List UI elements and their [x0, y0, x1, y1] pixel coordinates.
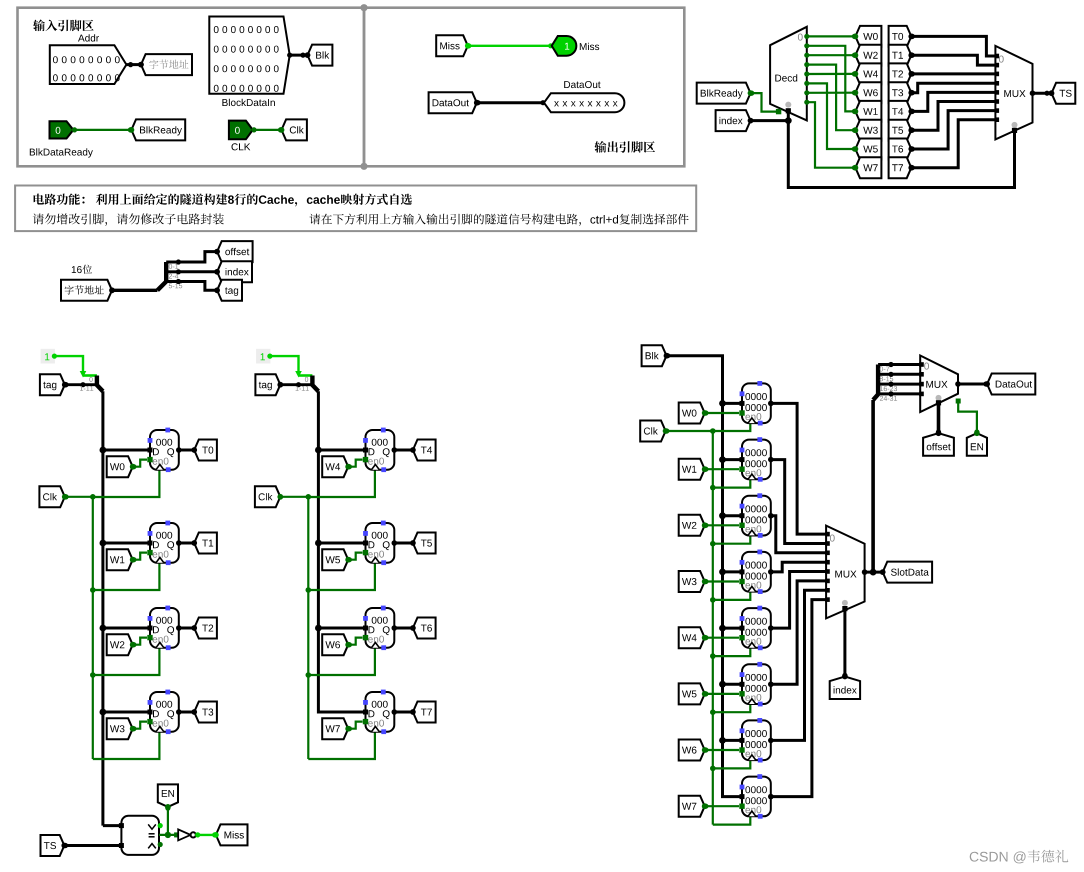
- wire W4 tunnel to register enable: [348, 460, 362, 467]
- wire slot register 1 Q to cache MUX input 1: [771, 460, 826, 544]
- wire W5 tunnel to slot register enable: [705, 693, 739, 695]
- tunnel W2 (write enable): [107, 634, 133, 655]
- wire W1 tunnel to slot register enable: [705, 468, 739, 470]
- decoder U1 Decd: [770, 27, 807, 121]
- wire Blk bus to slot register 3 D: [723, 570, 743, 573]
- tunnel Miss (comparator result): [216, 824, 248, 845]
- slot register R4 (32-bit): [742, 608, 771, 648]
- junction Blk bus row 5: [719, 681, 726, 688]
- clock branch to slot register 7: [713, 817, 751, 825]
- wire Blk bus to slot register 5 D: [723, 683, 743, 686]
- tunnel W6 (write enable): [322, 634, 348, 655]
- splitter SP1 (16-bit to offset/index/tag): [157, 262, 166, 290]
- wire slot register 7 Q to cache MUX input 7: [771, 600, 826, 797]
- junction Blk bus row 4: [719, 625, 726, 632]
- clock branch to register T7 (column W4-W7): [308, 732, 375, 759]
- wire tag tunnel to combiner (column W4-W7): [280, 383, 312, 386]
- clock branch to register T5 (column W4-W7): [308, 563, 375, 590]
- wire Blk bus to slot register 0 D: [723, 402, 743, 405]
- junction EN / equals wire: [165, 832, 171, 838]
- wire tag bus to register D row T2 (column W0-W3): [103, 627, 150, 630]
- junction tag bus row T3 (column W0-W3): [100, 709, 107, 716]
- wire EN tunnel to DataOut MUX enable: [958, 402, 977, 433]
- wire 字节地址 to splitter: [112, 289, 157, 292]
- tunnel W4 (decoder outputs): [855, 63, 881, 84]
- clock branch to slot register 2: [713, 536, 751, 544]
- junction clock rail top (column W4-W7): [306, 494, 312, 500]
- decoder select pin square: [786, 108, 791, 113]
- wire decoder out 7 to W7 tunnel: [807, 102, 856, 168]
- clock branch to register T6 (column W4-W7): [308, 648, 375, 675]
- circuit description box: [15, 186, 696, 232]
- mux U2 MUX (T0-T7 to TS): [995, 46, 1032, 139]
- label BlkDataReady: [30, 148, 93, 157]
- NOT gate input pin square: [174, 832, 179, 837]
- junction clock rail row T6 (column W4-W7): [306, 672, 312, 678]
- clock branch to slot register 3: [713, 592, 751, 600]
- tunnel W0 (decoder outputs): [855, 26, 881, 47]
- clock branch to register T0 (column W0-W3): [93, 470, 160, 497]
- wire splitter byte 3 to DataOut MUX input 3: [891, 392, 920, 395]
- register T1 (D flip-flop with enable): [150, 523, 179, 563]
- Blk bus to registers: [667, 356, 743, 797]
- label 输出引脚区: [595, 141, 656, 153]
- tunnel Clk (input area): [282, 119, 307, 140]
- slot register R3 (32-bit): [742, 552, 771, 592]
- label DataOut (above output pin): [564, 81, 600, 88]
- wire W0 tunnel to register enable: [133, 460, 147, 467]
- tunnel index (splitter): [217, 261, 252, 282]
- wire slot register 5 Q to cache MUX input 5: [771, 581, 826, 684]
- tunnel W7 (slot write enable): [679, 796, 705, 817]
- junction tag bus row T1 (column W0-W3): [100, 540, 107, 547]
- splitter SP2 bit labels: [880, 367, 890, 372]
- wire T2 tunnel to MUX input 2: [911, 72, 995, 75]
- tunnel W6 (decoder outputs): [855, 82, 881, 103]
- wire T1 tunnel to MUX input 1: [911, 55, 995, 65]
- clock branch to register T3 (column W0-W3): [93, 732, 160, 759]
- tunnel W3 (decoder outputs): [855, 120, 881, 141]
- label 输入引脚区: [33, 20, 94, 32]
- tunnel SlotData: [883, 562, 932, 583]
- junction tag bus row T0 (column W0-W3): [100, 447, 107, 454]
- wire T0 tunnel to MUX input 0: [911, 36, 995, 56]
- tunnel T1 (register output): [194, 533, 217, 554]
- wire decoder out 4 to W4 tunnel: [807, 73, 856, 75]
- wire NOT gate to Miss tunnel: [197, 834, 216, 836]
- tunnel T4 (to MUX): [889, 101, 912, 122]
- wire W2 tunnel to slot register enable: [705, 524, 739, 526]
- tunnel Clk (column W0-W3): [39, 486, 64, 507]
- input pin CLK (value 0): [229, 121, 253, 140]
- tunnel tag (splitter): [217, 280, 242, 301]
- wire register Q to T6 tunnel: [394, 627, 413, 630]
- wire Clk tunnel to slot register 0 clock: [666, 423, 751, 431]
- junction tag bus row T5 (column W4-W7): [315, 540, 322, 547]
- wire BlkDataReady to BlkReady tunnel: [73, 129, 131, 131]
- tunnel T7 (register output): [413, 702, 436, 723]
- register T0 (D flip-flop with enable): [150, 430, 179, 470]
- junction Blk bus row 1: [719, 456, 726, 463]
- wire register Q to T0 tunnel: [179, 449, 195, 452]
- frame handle bottom: [360, 163, 367, 170]
- comparator U3 (tag == TS): [121, 816, 159, 855]
- tunnel T2 (to MUX): [889, 63, 912, 84]
- tunnel offset (byte select): [923, 433, 954, 456]
- tunnel 字节地址 (splitter source): [61, 280, 112, 301]
- wire Miss tunnel to Miss output pin: [468, 45, 552, 47]
- wire tag bus to comparator input A (column W0-W3): [103, 824, 122, 827]
- tunnel W4 (slot write enable): [679, 627, 705, 648]
- wire BlockDataIn to Blk tunnel: [290, 54, 308, 57]
- tunnel Blk (input area): [308, 45, 333, 66]
- wire splitter byte 0 to DataOut MUX input 0: [891, 363, 920, 366]
- wire index to decoder select and MUX select: [751, 121, 1015, 188]
- register T4 (D flip-flop with enable): [366, 430, 395, 470]
- tag bus vertical (column W0-W3): [101, 391, 104, 825]
- wire register Q to T2 tunnel: [179, 627, 195, 630]
- constant 1 (column W4-W7): [256, 349, 270, 364]
- wire Blk bus to slot register 2 D: [723, 514, 743, 517]
- DataOut MUX enable pin square: [956, 399, 961, 404]
- wire CLK to Clk tunnel: [253, 129, 282, 131]
- tunnel W5 (decoder outputs): [855, 139, 881, 160]
- tunnel DataOut (cache output): [987, 374, 1035, 395]
- wire offset tunnel to DataOut MUX select: [937, 403, 941, 433]
- clock rail vertical (column W4-W7): [307, 497, 309, 759]
- text 请勿增改引脚: [33, 213, 224, 226]
- wire tag bus to register D row T6 (column W4-W7): [318, 627, 365, 630]
- wire W1 tunnel to register enable: [133, 553, 147, 560]
- tunnel T0 (to MUX): [889, 26, 912, 47]
- wire W2 tunnel to register enable: [133, 638, 147, 645]
- clock branch to slot register 6: [713, 760, 751, 768]
- text 电路功能 line: [34, 194, 412, 207]
- combiner bit labels (column W4-W7): [305, 377, 308, 382]
- junction cache clock rail top: [710, 428, 716, 434]
- tunnel W6 (slot write enable): [679, 740, 705, 761]
- junction cache clock rail row 4: [710, 653, 716, 659]
- tunnel tag (column W4-W7): [255, 374, 280, 395]
- wire slot register 2 Q to cache MUX input 2: [771, 516, 826, 553]
- wire decoder out 5 to W5 tunnel: [807, 83, 856, 149]
- wire BlkReady to decoder enable: [751, 93, 778, 112]
- wire splitter byte 1 to DataOut MUX input 1: [891, 373, 920, 376]
- tunnel T3 (register output): [194, 702, 217, 723]
- combiner leg arrow (column W0-W3): [80, 371, 87, 378]
- tunnel W1 (write enable): [107, 549, 133, 570]
- tunnel index (cache MUX select): [830, 677, 860, 700]
- wire W7 tunnel to register enable: [348, 722, 362, 729]
- tunnel W3 (slot write enable): [679, 571, 705, 592]
- tunnel T7 (to MUX): [889, 157, 912, 178]
- splitter SP2 (SlotData to bytes): [873, 365, 878, 401]
- tunnel W5 (write enable): [322, 549, 348, 570]
- clock branch to register T4 (column W4-W7): [308, 470, 375, 497]
- input pin BlockDataIn (32-bit): [209, 17, 289, 94]
- tunnel W3 (write enable): [107, 718, 133, 739]
- comparator > output dot: [158, 823, 163, 828]
- tunnel W1 (slot write enable): [679, 459, 705, 480]
- junction clock rail row T1 (column W0-W3): [90, 587, 96, 593]
- wire tag bus to register D row T0 (column W0-W3): [103, 449, 150, 452]
- combiner leg 0 (column W4-W7): [299, 374, 313, 377]
- tunnel Clk (column W4-W7): [255, 486, 280, 507]
- label 16位: [72, 266, 82, 273]
- wire T7 tunnel to MUX input 7: [911, 120, 995, 168]
- tunnel TS (to comparator): [41, 835, 65, 856]
- tunnel W0 (write enable): [107, 456, 133, 477]
- wire slot register 6 Q to cache MUX input 6: [771, 590, 826, 740]
- wire slot register 0 Q to cache MUX input 0: [771, 403, 826, 534]
- junction Blk bus row 3: [719, 569, 726, 576]
- wire splitter leg 2-4 to index tunnel: [178, 270, 217, 273]
- junction SlotData output: [870, 569, 877, 576]
- junction cache clock rail row 1: [710, 485, 716, 491]
- wire W3 tunnel to slot register enable: [705, 580, 739, 582]
- tunnel W5 (slot write enable): [679, 683, 705, 704]
- slot register R1 (32-bit): [742, 440, 771, 480]
- wire comparator = output to NOT gate: [159, 834, 178, 836]
- tunnel W4 (write enable): [322, 456, 348, 477]
- combiner SP (valid+tag) (column W4-W7): [312, 376, 318, 392]
- output pin DataOut (value xxxxxxxx): [544, 93, 624, 112]
- tunnel T6 (register output): [413, 618, 436, 639]
- combiner bit labels (column W0-W3): [89, 377, 92, 382]
- wire Blk bus to slot register 1 D: [723, 458, 743, 461]
- tunnel EN (DataOut MUX enable): [967, 433, 987, 456]
- wire MUX output to TS tunnel: [1033, 92, 1052, 95]
- clock branch to slot register 1: [713, 480, 751, 488]
- tunnel Miss (source): [436, 35, 468, 56]
- text 请在下方利用: [310, 214, 689, 226]
- wire slot register 4 Q to cache MUX input 4: [771, 572, 826, 629]
- wire register Q to T1 tunnel: [179, 542, 195, 545]
- slot register R6 (32-bit): [742, 720, 771, 760]
- clock rail vertical (column W0-W3): [92, 497, 94, 759]
- junction tag bus row T2 (column W0-W3): [100, 625, 107, 632]
- wire decoder out 6 to W6 tunnel: [807, 92, 856, 94]
- junction clock rail top (column W0-W3): [90, 494, 96, 500]
- register T5 (D flip-flop with enable): [366, 523, 395, 563]
- tunnel EN (to comparator output net): [158, 784, 178, 807]
- wire W6 tunnel to register enable: [348, 638, 362, 645]
- wire decoder out 0 to W0 tunnel: [807, 35, 856, 37]
- splitter SP1 bit labels: [169, 264, 179, 269]
- wire T6 tunnel to MUX input 6: [911, 111, 995, 149]
- frame of input pin area (输入引脚区): [18, 8, 365, 167]
- wire tag bus to register D row T1 (column W0-W3): [103, 542, 150, 545]
- tunnel BlkReady (input area): [131, 119, 185, 140]
- register T3 (D flip-flop with enable): [150, 692, 179, 732]
- constant 1 (column W0-W3): [41, 349, 55, 364]
- wire Clk tunnel to clock rail (column W0-W3): [65, 496, 93, 498]
- tunnel W1 (decoder outputs): [855, 101, 881, 122]
- slot register R2 (32-bit): [742, 496, 771, 536]
- wire register Q to T3 tunnel: [179, 711, 195, 714]
- label Addr: [78, 34, 99, 41]
- wire TS tunnel to comparator input B: [64, 844, 121, 847]
- frame of output pin area (输出引脚区): [364, 8, 684, 167]
- junction cache clock rail row 2: [710, 541, 716, 547]
- wire splitter leg 5-15 to tag tunnel: [178, 282, 217, 291]
- mux U5 MUX (byte select to DataOut): [920, 356, 958, 413]
- input pin Addr (16-bit): [50, 45, 127, 84]
- input pin BlkDataReady (value 0): [50, 121, 74, 138]
- junction tag bus row T4 (column W4-W7): [315, 447, 322, 454]
- wire cache MUX output to SlotData tunnel: [865, 571, 883, 574]
- tunnel T3 (to MUX): [889, 82, 912, 103]
- wire tag bus to register D row T3 (column W0-W3): [103, 711, 150, 714]
- label BlockDataIn: [222, 99, 275, 106]
- slot register R5 (32-bit): [742, 664, 771, 704]
- tunnel T5 (register output): [413, 533, 436, 554]
- wire decoder out 1 to W1 tunnel: [807, 46, 856, 112]
- wire Blk bus to slot register 4 D: [723, 627, 743, 630]
- tunnel Blk (cache write data): [642, 345, 667, 366]
- tunnel BlkReady (to decoder enable): [697, 83, 751, 104]
- tunnel T5 (to MUX): [889, 120, 912, 141]
- wire index tunnel to cache MUX select: [843, 609, 846, 677]
- tunnel W2 (decoder outputs): [855, 45, 881, 66]
- wire W6 tunnel to slot register enable: [705, 749, 739, 751]
- label CLK: [232, 143, 251, 150]
- wire constant 1 to combiner (column W0-W3): [54, 356, 83, 372]
- tunnel offset (splitter): [217, 241, 253, 262]
- register T6 (D flip-flop with enable): [366, 608, 395, 648]
- junction cache clock rail row 5: [710, 709, 716, 715]
- mux U4 MUX (cache slots to SlotData): [826, 526, 865, 619]
- tunnel W0 (slot write enable): [679, 403, 705, 424]
- tunnel W2 (slot write enable): [679, 515, 705, 536]
- wire DataOut tunnel to DataOut output pin: [477, 101, 544, 104]
- clock branch to register T2 (column W0-W3): [93, 648, 160, 675]
- combiner leg 0 (column W0-W3): [83, 374, 97, 377]
- wire register Q to T7 tunnel: [394, 711, 413, 714]
- SlotData bus up to byte splitter: [871, 400, 875, 572]
- wire Clk tunnel to clock rail (column W4-W7): [280, 496, 308, 498]
- tag bus vertical (column W4-W7): [318, 391, 365, 712]
- junction Blk bus row 2: [719, 512, 726, 519]
- frame handle top: [360, 4, 367, 11]
- wire stub decoder select: [787, 112, 790, 121]
- wire register Q to T4 tunnel: [394, 449, 413, 452]
- tunnel Clk (cache clock): [640, 421, 665, 442]
- wire constant 1 to combiner (column W4-W7): [270, 356, 299, 372]
- junction tag bus row T6 (column W4-W7): [315, 625, 322, 632]
- wire W5 tunnel to register enable: [348, 553, 362, 560]
- wire decoder out 3 to W3 tunnel: [807, 65, 856, 131]
- wire splitter leg 0-1 to offset tunnel: [178, 252, 217, 262]
- watermark CSDN @韦德礼: [970, 851, 1026, 863]
- tunnel index (to decoder select): [716, 110, 751, 131]
- wire decoder out 2 to W2 tunnel: [807, 54, 856, 56]
- tunnel 字节地址 (input area): [141, 54, 192, 75]
- wire tag bus to register D row T4 (column W4-W7): [318, 449, 365, 452]
- wire register Q to T5 tunnel: [394, 542, 413, 545]
- clock branch to slot register 4: [713, 648, 751, 656]
- combiner leg arrow (column W4-W7): [295, 371, 302, 378]
- tunnel T2 (register output): [194, 618, 217, 639]
- wire W3 tunnel to register enable: [133, 722, 147, 729]
- wire tag tunnel to combiner (column W0-W3): [65, 383, 97, 386]
- wire slot register 3 Q to cache MUX input 3: [771, 562, 826, 572]
- tunnel T1 (to MUX): [889, 45, 912, 66]
- cache clock rail vertical: [712, 431, 714, 825]
- junction clock rail row T2 (column W0-W3): [90, 672, 96, 678]
- register T7 (D flip-flop with enable): [366, 692, 395, 732]
- clock branch to register T1 (column W0-W3): [93, 563, 160, 590]
- tunnel T6 (to MUX): [889, 139, 912, 160]
- junction cache clock rail row 3: [710, 597, 716, 603]
- junction Blk bus row 0: [719, 400, 726, 407]
- inverter G1 (NOT gate): [178, 829, 190, 840]
- clock branch to slot register 5: [713, 704, 751, 712]
- wire W0 tunnel to slot register enable: [705, 412, 739, 414]
- tunnel W7 (decoder outputs): [855, 157, 881, 178]
- tunnel T4 (register output): [413, 440, 436, 461]
- wire tag bus to register D row T5 (column W4-W7): [318, 542, 365, 545]
- tunnel TS (MUX output): [1052, 83, 1076, 104]
- wire Blk bus to slot register 6 D: [723, 739, 743, 742]
- label Miss (output pin): [580, 43, 599, 50]
- slot register R0 (32-bit): [742, 383, 771, 423]
- tunnel W7 (write enable): [322, 718, 348, 739]
- wire splitter byte 2 to DataOut MUX input 2: [891, 383, 920, 386]
- junction cache clock rail row 6: [710, 766, 716, 772]
- register T2 (D flip-flop with enable): [150, 608, 179, 648]
- wire T4 tunnel to MUX input 4: [911, 92, 995, 111]
- junction clock rail row T5 (column W4-W7): [306, 587, 312, 593]
- tunnel T0 (register output): [194, 440, 217, 461]
- slot register R7 (32-bit): [742, 777, 771, 817]
- wire W4 tunnel to slot register enable: [705, 637, 739, 639]
- combiner SP (valid+tag) (column W0-W3): [97, 376, 103, 392]
- wire T5 tunnel to MUX input 5: [911, 102, 995, 131]
- wire Addr pin to 字节地址 tunnel: [126, 63, 141, 66]
- wire EN tunnel down to equals net: [167, 807, 169, 835]
- tunnel DataOut (source): [429, 92, 477, 113]
- wire T3 tunnel to MUX input 3: [911, 83, 995, 92]
- junction index wire: [785, 117, 792, 124]
- wire W7 tunnel to slot register enable: [705, 805, 739, 807]
- comparator < output dot: [158, 842, 163, 847]
- junction Blk bus row 6: [719, 737, 726, 744]
- output pin Miss (value 1): [552, 36, 577, 56]
- wire DataOut MUX output to DataOut tunnel: [958, 383, 987, 386]
- tunnel tag (column W0-W3): [40, 374, 65, 395]
- decoder enable pin square: [776, 109, 781, 114]
